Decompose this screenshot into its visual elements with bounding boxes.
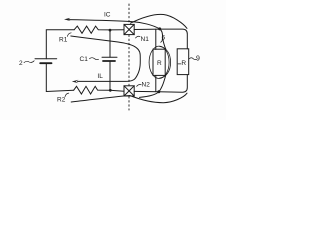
winding N1 crossed box bbox=[124, 24, 134, 34]
capacitor C1 plates bbox=[102, 56, 117, 58]
svg-text:N1: N1 bbox=[141, 36, 150, 43]
C1 lower lead bbox=[109, 61, 111, 90]
resistor R1 bbox=[74, 26, 110, 33]
svg-text:IL: IL bbox=[97, 73, 103, 80]
core dashed line bbox=[128, 4, 130, 110]
capacitor 2 bottom lead wire bbox=[46, 63, 73, 91]
IC arrowhead bbox=[64, 18, 71, 21]
wire N2 to right corner bbox=[134, 75, 187, 92]
resistor box R left bbox=[153, 49, 165, 75]
wire R1 to N1 bbox=[110, 29, 124, 31]
wire diagonal right box corner through dot4 bbox=[140, 76, 166, 98]
wire N1 to right corner bbox=[134, 29, 187, 49]
IC current arrow line through dot3 to right box corner bbox=[68, 20, 166, 49]
long lower line under R2 sweeping to N2 corner and bump to right box bottom bbox=[71, 93, 187, 103]
node dot4 junction bbox=[157, 90, 160, 93]
C1 branch vertical from dot1 bbox=[109, 30, 111, 57]
winding N2 crossed box bbox=[124, 86, 134, 96]
small dash in right box bbox=[178, 63, 181, 65]
svg-text:R: R bbox=[181, 60, 186, 67]
svg-text:9: 9 bbox=[196, 56, 200, 63]
wire lead left box top bbox=[155, 29, 157, 49]
node dot1 junction bbox=[109, 29, 112, 32]
wire R2 to N2 bbox=[110, 90, 124, 91]
svg-text:IC: IC bbox=[104, 12, 111, 19]
node dot2 junction bbox=[109, 89, 112, 92]
winding oval around left box bbox=[149, 46, 169, 78]
svg-text:R1: R1 bbox=[59, 36, 68, 43]
wire lead left box bottom bbox=[155, 76, 157, 92]
capacitor 2 plates bbox=[35, 58, 57, 60]
node dot3 junction bbox=[158, 27, 161, 30]
svg-text:C1: C1 bbox=[80, 56, 89, 63]
svg-text:N2: N2 bbox=[142, 82, 151, 89]
capacitor 2 top lead wire bbox=[46, 30, 74, 59]
svg-text:2: 2 bbox=[19, 60, 23, 67]
IL arrowhead bbox=[72, 80, 79, 83]
svg-text:R: R bbox=[157, 60, 162, 67]
svg-text:R2: R2 bbox=[57, 97, 66, 104]
resistor box R right bbox=[177, 49, 189, 75]
winding oval second turn right arc bbox=[160, 46, 171, 78]
resistor R2 bbox=[74, 86, 110, 94]
wire arc N1 corner bump to right box top bbox=[130, 14, 187, 28]
IL load loop (single rounded loop) bbox=[71, 36, 141, 81]
